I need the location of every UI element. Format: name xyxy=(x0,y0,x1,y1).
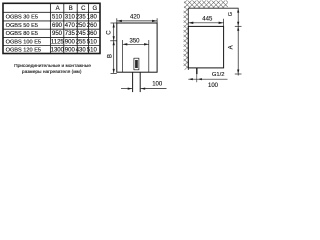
svg-text:B: B xyxy=(69,6,73,12)
svg-text:A: A xyxy=(56,6,60,12)
svg-text:OGBS 120 E5: OGBS 120 E5 xyxy=(6,48,41,54)
wall hatch xyxy=(184,8,189,70)
svg-text:C: C xyxy=(81,6,86,12)
svg-text:420: 420 xyxy=(130,15,141,21)
svg-text:235: 235 xyxy=(76,15,87,21)
svg-text:G: G xyxy=(92,6,97,12)
dim 100 side view xyxy=(188,78,227,80)
svg-text:C: C xyxy=(106,30,112,35)
svg-text:B: B xyxy=(108,54,114,58)
dim 445 line xyxy=(188,19,223,27)
svg-text:260: 260 xyxy=(87,23,98,29)
table model names column xyxy=(6,15,41,54)
table data values xyxy=(51,15,98,54)
svg-text:510: 510 xyxy=(87,40,98,46)
svg-text:470: 470 xyxy=(65,23,76,29)
pipes bottom front view xyxy=(132,72,134,92)
svg-text:900: 900 xyxy=(65,40,76,46)
svg-text:180: 180 xyxy=(87,15,98,21)
C/B arrows xyxy=(113,23,115,28)
svg-text:A: A xyxy=(229,45,235,49)
dim 100 side arrows xyxy=(188,78,193,80)
svg-text:1125: 1125 xyxy=(51,40,65,46)
svg-text:510: 510 xyxy=(87,48,98,54)
svg-text:250: 250 xyxy=(76,23,87,29)
svg-text:950: 950 xyxy=(52,31,63,37)
svg-text:735: 735 xyxy=(65,31,76,37)
heater body side view xyxy=(188,26,223,68)
svg-text:Присоединительные и монтажные: Присоединительные и монтажные xyxy=(14,63,91,69)
A bottom arrow xyxy=(237,70,239,75)
svg-text:G1/2: G1/2 xyxy=(212,72,225,78)
svg-text:размеры нагревателя (мм): размеры нагревателя (мм) xyxy=(22,69,82,75)
svg-text:255: 255 xyxy=(76,40,87,46)
svg-text:430: 430 xyxy=(76,48,87,54)
dim 100 front view xyxy=(121,88,167,90)
dim 350 arrows xyxy=(123,43,128,45)
dim 445 arrows xyxy=(188,22,193,24)
svg-text:100: 100 xyxy=(208,83,219,89)
svg-text:445: 445 xyxy=(202,17,213,23)
svg-text:350: 350 xyxy=(129,39,140,45)
svg-text:1300: 1300 xyxy=(51,48,65,54)
ceiling line xyxy=(188,7,238,9)
svg-text:245: 245 xyxy=(76,31,87,37)
dim 100 front arrows xyxy=(128,88,133,90)
svg-text:G: G xyxy=(228,12,234,16)
tick heater top level xyxy=(235,25,242,27)
dim 420 line xyxy=(117,18,157,23)
heater body front view xyxy=(117,23,157,72)
side view pipe xyxy=(196,68,198,74)
table header row xyxy=(56,6,98,12)
svg-text:OGBS 50 E5: OGBS 50 E5 xyxy=(6,23,38,29)
svg-text:900: 900 xyxy=(65,48,76,54)
G bottom arrow xyxy=(237,22,239,27)
svg-text:OGBS 30 E5: OGBS 30 E5 xyxy=(6,15,38,21)
svg-text:OGBS 100 E5: OGBS 100 E5 xyxy=(6,39,41,45)
G/A dimension line xyxy=(237,8,239,75)
wall line xyxy=(187,8,189,70)
dim 420 arrows xyxy=(117,20,122,22)
svg-text:360: 360 xyxy=(87,31,98,37)
svg-text:OGBS 80 E5: OGBS 80 E5 xyxy=(6,31,38,37)
dim 350 inner extension lines xyxy=(123,40,149,72)
G top arrow xyxy=(237,8,239,12)
svg-text:510: 510 xyxy=(52,15,63,21)
tick bottom level xyxy=(235,73,242,75)
dimension table OGBS xyxy=(3,3,101,53)
svg-text:310: 310 xyxy=(65,15,76,21)
C/B dimension line xyxy=(110,23,117,73)
heating element capsule xyxy=(134,58,139,70)
A top arrow xyxy=(237,26,239,31)
svg-text:100: 100 xyxy=(152,82,163,88)
ceiling hatch xyxy=(184,0,228,8)
svg-text:690: 690 xyxy=(52,23,63,29)
caption under table xyxy=(14,63,91,75)
